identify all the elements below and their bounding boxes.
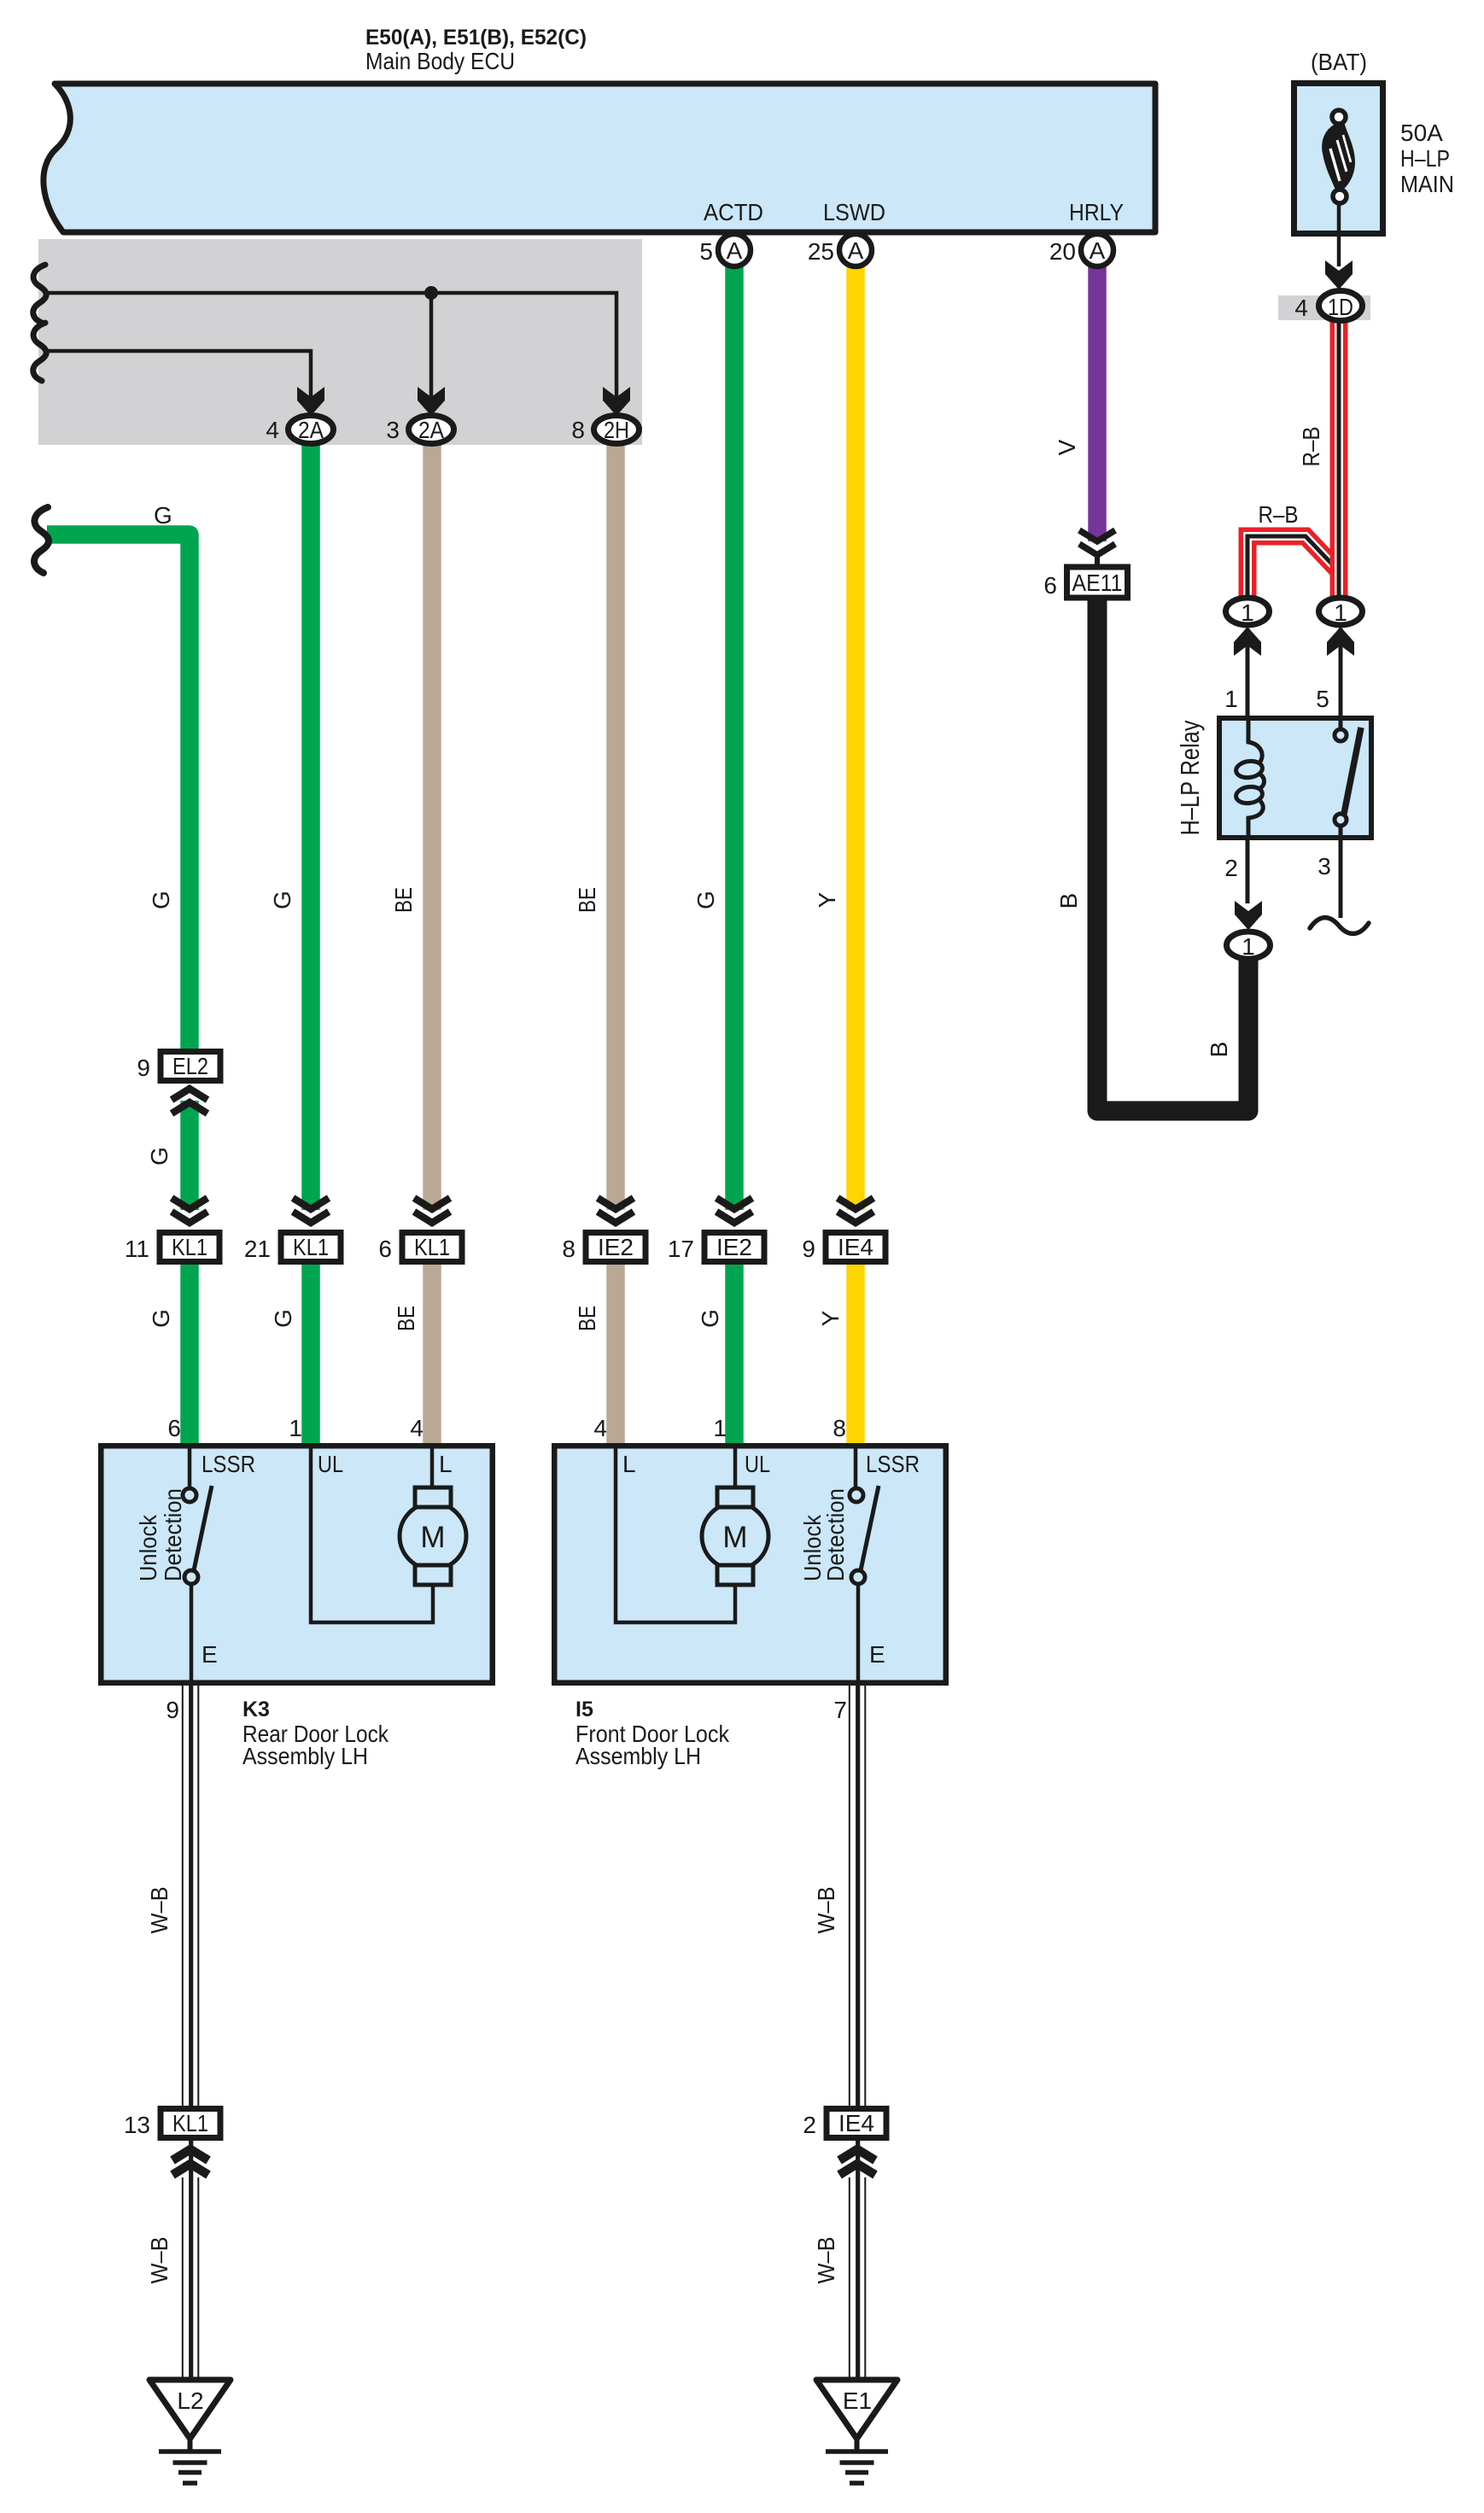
svg-text:8: 8 (833, 1415, 846, 1441)
svg-text:4: 4 (593, 1415, 607, 1441)
connector oval 1 relay pin1 (1226, 598, 1270, 626)
label G top-left (154, 502, 172, 529)
svg-text:E: E (869, 1641, 885, 1668)
connector box IE4 pin2 (827, 2109, 886, 2138)
arrowhead down into relay pin2 oval (1235, 901, 1262, 930)
I5 pin numbers above box (593, 1415, 846, 1441)
svg-text:BE: BE (574, 1306, 600, 1331)
wire G horizontal top-left (47, 535, 190, 1443)
svg-text:IE2: IE2 (716, 1234, 752, 1260)
ground L2 (149, 2380, 231, 2483)
svg-text:2A: 2A (418, 417, 444, 443)
svg-text:EL2: EL2 (172, 1053, 208, 1079)
wire label G x860 upper (692, 891, 719, 909)
wire label B left (1055, 893, 1082, 909)
svg-text:4: 4 (266, 417, 279, 443)
gray band behind 1D connector (1278, 295, 1370, 320)
svg-text:5: 5 (699, 238, 713, 265)
gray ECU internal bus region (38, 239, 642, 445)
svg-text:1D: 1D (1328, 294, 1353, 320)
svg-text:2A: 2A (298, 417, 324, 443)
connector box IE4 pin9 (826, 1233, 885, 1262)
svg-text:W–B: W–B (146, 2237, 172, 2284)
label HRLY (1069, 199, 1124, 225)
K3 internal labels (135, 1451, 453, 1668)
arrowhead into 2H pin8 (603, 387, 630, 416)
wire W-B from K3 pin9 to ground L2 (183, 1686, 199, 2377)
svg-text:W–B: W–B (813, 1887, 839, 1934)
wire label G x860 lower (697, 1309, 723, 1328)
junction dot (424, 286, 438, 300)
ECU E50/E51/E52 Main Body ECU box (44, 84, 1155, 232)
svg-text:E50(A), E51(B), E52(C): E50(A), E51(B), E52(C) (365, 26, 587, 50)
svg-text:3: 3 (386, 417, 400, 443)
arrowhead into 1D (1325, 260, 1353, 289)
I5 motor M (702, 1487, 768, 1585)
svg-text:Detection: Detection (822, 1488, 849, 1581)
svg-text:V: V (1054, 439, 1080, 455)
svg-text:Y: Y (814, 891, 840, 908)
svg-text:2: 2 (1224, 855, 1238, 881)
connector oval 1 relay pin2 (1227, 932, 1271, 960)
svg-text:UL: UL (318, 1451, 343, 1477)
connector circle A pin5 ACTD (718, 234, 751, 266)
svg-text:8: 8 (571, 417, 585, 443)
svg-text:E1: E1 (843, 2387, 872, 2414)
wire label G x222 lower (148, 1309, 174, 1328)
svg-text:4: 4 (410, 1415, 424, 1441)
connector circle A pin20 HRLY (1081, 234, 1113, 266)
svg-text:HRLY: HRLY (1069, 199, 1124, 225)
svg-text:LSSR: LSSR (866, 1451, 920, 1477)
arrowhead up into relay pin1 oval (1234, 627, 1261, 656)
connector box IE2 pin8 (586, 1233, 646, 1262)
wire label BE x506 lower (393, 1306, 419, 1331)
connector oval 2A pin4 (289, 416, 334, 444)
svg-text:KL1: KL1 (414, 1234, 450, 1260)
connector box KL1 pin6 (402, 1233, 462, 1262)
svg-text:IE2: IE2 (598, 1234, 634, 1260)
connector box IE2 pin17 (704, 1233, 764, 1262)
svg-text:B: B (1055, 893, 1082, 909)
svg-text:13: 13 (124, 2112, 150, 2138)
svg-text:1: 1 (1242, 933, 1255, 960)
W-B labels left (146, 1887, 172, 2284)
pin number 4 (2A) (266, 417, 279, 443)
title ECU (365, 26, 587, 74)
fuse box (BAT) background (1294, 84, 1383, 234)
svg-text:G: G (146, 1147, 172, 1166)
K3 UL wire (311, 1443, 433, 1622)
svg-text:7: 7 (833, 1697, 847, 1723)
svg-text:L: L (439, 1451, 453, 1477)
svg-text:G: G (154, 502, 172, 529)
svg-text:5: 5 (1316, 686, 1329, 712)
wire label R-B rotated (1298, 427, 1324, 467)
svg-text:G: G (270, 1309, 296, 1328)
svg-text:H–LP Relay: H–LP Relay (1175, 720, 1205, 835)
arrowhead into 2A pin4 (297, 387, 324, 416)
relay coil (1235, 718, 1264, 840)
connector box KL1 pin13 (161, 2109, 220, 2138)
label H-LP Relay (1175, 720, 1205, 835)
svg-text:W–B: W–B (813, 2237, 839, 2284)
pin number 5 (699, 238, 713, 265)
wire W-B from I5 pin7 to ground E1 (850, 1686, 866, 2377)
svg-text:W–B: W–B (146, 1887, 172, 1934)
svg-text:G: G (692, 891, 719, 909)
chevrons up into EL2 (172, 1089, 207, 1113)
pin number 8 (2H) (571, 417, 585, 443)
pin number 2 IE4 (803, 2112, 816, 2138)
connector box EL2 pin9 (161, 1052, 220, 1081)
svg-text:R–B: R–B (1259, 501, 1299, 528)
svg-text:IE4: IE4 (838, 1234, 873, 1260)
break squiggle wire A (33, 265, 46, 323)
label ACTD (704, 199, 763, 225)
label G below EL2 (146, 1147, 172, 1166)
chevrons into AE11 (1079, 530, 1115, 566)
svg-text:A: A (848, 237, 864, 264)
svg-text:6: 6 (167, 1415, 181, 1441)
svg-text:A: A (1090, 237, 1106, 264)
internal ECU wire to 2A pin4 (lower) (46, 351, 311, 403)
svg-text:6: 6 (1043, 572, 1057, 599)
pin number 20 (1049, 238, 1076, 265)
svg-text:20: 20 (1049, 238, 1076, 265)
svg-text:6: 6 (378, 1236, 392, 1262)
wire G ACTD to I5 (725, 263, 744, 1443)
svg-text:4: 4 (1294, 295, 1308, 321)
pin number 17 IE2 (668, 1236, 694, 1262)
connector oval 1D pin4 (1319, 291, 1363, 321)
svg-text:G: G (148, 1309, 174, 1328)
svg-text:9: 9 (137, 1055, 150, 1081)
K3 unlock detection switch (183, 1443, 212, 1686)
svg-text:BE: BE (393, 1306, 419, 1331)
chevrons down into KL1 pin21 (293, 1198, 329, 1223)
svg-text:Assembly LH: Assembly LH (242, 1743, 368, 1769)
label (BAT) (1311, 49, 1367, 75)
wire R-B main from 1D to relay pin5 (1330, 321, 1348, 598)
break squiggle wire B (33, 323, 46, 381)
wire BE from 2A pin3 to K3 (423, 441, 441, 1443)
svg-text:K3: K3 (242, 1698, 270, 1721)
svg-text:L: L (622, 1451, 636, 1477)
wire label BE x721 upper (574, 887, 600, 913)
svg-text:Unlock: Unlock (135, 1514, 161, 1581)
chevrons up into KL1 pin13 (172, 2149, 208, 2175)
svg-text:M: M (722, 1521, 747, 1554)
ground label E1 (843, 2387, 872, 2414)
K3 L wire (430, 1443, 435, 1491)
svg-text:E: E (202, 1641, 218, 1668)
wire label G x364 upper (269, 891, 295, 909)
pin number 11 (125, 1236, 149, 1262)
internal ECU wire to 2A/2H (upper) (46, 293, 616, 403)
svg-text:17: 17 (668, 1236, 694, 1262)
svg-text:1: 1 (713, 1415, 727, 1441)
connector oval 2H pin8 (594, 416, 640, 444)
svg-text:L2: L2 (177, 2387, 203, 2414)
svg-text:Y: Y (817, 1310, 844, 1326)
pin number 21 (244, 1236, 271, 1262)
wire label R-B horizontal (1259, 501, 1299, 528)
svg-text:BE: BE (390, 887, 417, 913)
svg-text:R–B: R–B (1298, 427, 1324, 467)
chevrons down into KL1 pin11 (172, 1198, 207, 1223)
svg-text:A: A (727, 237, 743, 264)
svg-text:Main Body ECU: Main Body ECU (365, 48, 515, 74)
label 50A H-LP MAIN (1400, 120, 1454, 197)
K3 name labels (166, 1697, 389, 1769)
svg-text:UL: UL (745, 1451, 770, 1477)
svg-text:1: 1 (1224, 686, 1238, 712)
svg-text:3: 3 (1317, 853, 1331, 880)
wire label BE x721 lower (574, 1306, 600, 1331)
pin number 13 KL1 (124, 2112, 150, 2138)
relay pin labels (1224, 686, 1331, 881)
wire Y LSWD to I5 (846, 263, 865, 1443)
svg-text:2H: 2H (604, 417, 629, 443)
connector oval 1 relay pin5 (1319, 598, 1363, 626)
chevrons down into KL1 pin6 (414, 1198, 450, 1223)
svg-text:1: 1 (289, 1415, 302, 1441)
wire B from AE11 to relay pin2 oval (1097, 598, 1248, 1111)
K3 motor M (400, 1487, 466, 1585)
svg-text:2: 2 (803, 2112, 816, 2138)
svg-text:LSWD: LSWD (823, 199, 885, 225)
svg-text:50A: 50A (1400, 120, 1443, 146)
wire label B right (1206, 1042, 1232, 1058)
connector box KL1 pin21 (281, 1233, 341, 1262)
svg-text:H–LP: H–LP (1400, 145, 1450, 172)
I5 Front Door Lock Assembly LH box (554, 1446, 946, 1683)
I5 internal labels (622, 1451, 920, 1668)
svg-text:KL1: KL1 (172, 1234, 207, 1260)
svg-text:MAIN: MAIN (1400, 171, 1454, 197)
chevrons down into IE2 pin17 (716, 1198, 752, 1223)
svg-text:9: 9 (166, 1697, 179, 1723)
connector oval 2A pin3 (409, 416, 454, 444)
svg-text:B: B (1206, 1042, 1232, 1058)
svg-text:9: 9 (802, 1236, 815, 1262)
connector box AE11 pin6 (1067, 567, 1128, 598)
wire label Y x1002 lower (817, 1310, 844, 1326)
svg-text:25: 25 (808, 238, 834, 265)
K3 Rear Door Lock Assembly LH box (101, 1446, 493, 1683)
relay switch (1335, 718, 1361, 838)
chevrons up into IE4 pin2 (839, 2149, 875, 2175)
wire label BE x506 upper (390, 887, 417, 913)
svg-text:8: 8 (562, 1236, 575, 1262)
pin number 4 (1D) (1294, 295, 1308, 321)
arrowhead up into relay pin5 oval (1327, 627, 1354, 656)
svg-text:G: G (697, 1309, 723, 1328)
svg-text:11: 11 (125, 1236, 149, 1262)
connector circle A pin25 LSWD (839, 234, 872, 266)
pin number 3 (2A) (386, 417, 400, 443)
wire V HRLY to AE11 (1088, 263, 1107, 541)
ground E1 (816, 2380, 897, 2483)
relay H-LP Relay box (1219, 628, 1371, 918)
ground label L2 (177, 2387, 203, 2414)
svg-text:G: G (269, 891, 295, 909)
svg-text:IE4: IE4 (838, 2110, 874, 2136)
pin number 25 (808, 238, 834, 265)
svg-text:AE11: AE11 (1072, 570, 1123, 596)
pin number 6 AE11 (1043, 572, 1057, 599)
svg-text:G: G (148, 891, 174, 909)
svg-text:KL1: KL1 (293, 1234, 329, 1260)
pin number 9 EL2 (137, 1055, 150, 1081)
svg-text:Detection: Detection (160, 1488, 186, 1581)
svg-text:LSSR: LSSR (202, 1451, 255, 1477)
I5 name labels (575, 1697, 847, 1769)
break squiggle G wire (34, 507, 49, 573)
I5 unlock detection switch (850, 1443, 879, 1686)
label LSWD (823, 199, 885, 225)
svg-text:I5: I5 (575, 1698, 593, 1721)
arrowhead into 2A pin3 (418, 387, 445, 416)
svg-text:BE: BE (574, 887, 600, 913)
chevrons down into IE4 pin9 (838, 1198, 873, 1223)
svg-text:ACTD: ACTD (704, 199, 763, 225)
wire BE from 2H pin8 to I5 (606, 441, 625, 1443)
wire label G x222 upper (148, 891, 174, 909)
I5 UL wire (733, 1443, 738, 1491)
K3 pin numbers above box (167, 1415, 424, 1441)
svg-text:KL1: KL1 (172, 2110, 208, 2136)
svg-text:(BAT): (BAT) (1311, 49, 1367, 75)
connector box KL1 pin11 (160, 1233, 219, 1262)
wire label G x364 lower (270, 1309, 296, 1328)
svg-text:M: M (420, 1521, 445, 1554)
wire label Y x1002 upper (814, 891, 840, 908)
svg-text:Assembly LH: Assembly LH (575, 1743, 701, 1769)
pin number 8 IE2 (562, 1236, 575, 1262)
pin number 9 IE4 (802, 1236, 815, 1262)
fuse 50A H-LP MAIN symbol (1322, 110, 1355, 266)
wire G from 2A pin4 to K3 (301, 441, 320, 1443)
break squiggle at relay pin3 (1310, 918, 1369, 934)
W-B labels right (813, 1887, 839, 2284)
chevrons down into IE2 pin8 (598, 1198, 634, 1223)
I5 L wire (616, 1443, 735, 1622)
svg-text:1: 1 (1241, 599, 1254, 626)
wire R-B branch to relay pin1 (1247, 536, 1338, 599)
svg-text:1: 1 (1334, 599, 1347, 626)
pin number 6 KL1 (378, 1236, 392, 1262)
svg-text:21: 21 (244, 1236, 271, 1262)
wire label V purple (1054, 439, 1080, 455)
